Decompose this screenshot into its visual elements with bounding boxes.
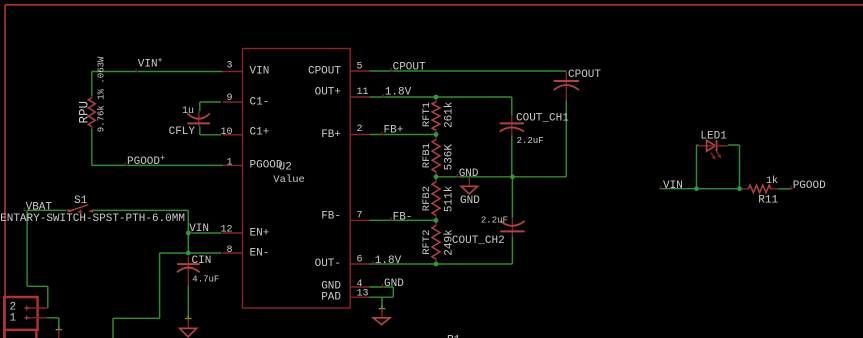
svg-text:C1-: C1- [250, 97, 270, 109]
svg-text:RPU: RPU [78, 101, 92, 124]
svg-text:EN-: EN- [250, 247, 270, 259]
svg-text:511k: 511k [444, 185, 456, 212]
svg-text:1: 1 [226, 157, 232, 168]
svg-text:CPOUT: CPOUT [568, 69, 601, 81]
svg-text:9: 9 [226, 93, 232, 104]
svg-text:8: 8 [226, 245, 232, 256]
svg-text:2: 2 [357, 124, 363, 135]
svg-text:12: 12 [220, 224, 232, 235]
svg-text:LED1: LED1 [700, 131, 727, 143]
svg-text:+: + [158, 57, 163, 66]
svg-text:249k: 249k [444, 229, 456, 256]
svg-text:PGOOD: PGOOD [250, 160, 283, 172]
svg-text:GND: GND [459, 168, 479, 180]
svg-text:EN+: EN+ [250, 227, 270, 239]
svg-text:FB+: FB+ [321, 129, 341, 141]
svg-text:1k: 1k [766, 175, 778, 187]
svg-text:RFB1: RFB1 [421, 143, 433, 168]
svg-text:1u: 1u [182, 106, 194, 117]
svg-text:261k: 261k [444, 101, 456, 128]
svg-text:R11: R11 [758, 194, 778, 206]
svg-text:9.76k 1% .063W: 9.76k 1% .063W [96, 56, 106, 132]
svg-text:5: 5 [357, 61, 363, 72]
svg-text:1.8V: 1.8V [385, 86, 412, 98]
svg-text:VIN: VIN [663, 180, 683, 192]
svg-text:11: 11 [357, 87, 369, 98]
svg-text:S1: S1 [74, 195, 88, 207]
svg-text:PGOOD: PGOOD [793, 180, 826, 192]
svg-text:536K: 536K [444, 144, 456, 171]
svg-text:CIN: CIN [192, 255, 212, 267]
svg-text:R1: R1 [447, 335, 461, 338]
svg-text:7: 7 [357, 211, 363, 222]
svg-text:VBAT: VBAT [26, 202, 53, 214]
svg-text:2.2uF: 2.2uF [481, 216, 508, 226]
svg-text:13: 13 [357, 288, 369, 299]
svg-text:VIN: VIN [250, 66, 270, 78]
svg-text:FB+: FB+ [384, 124, 404, 136]
svg-text:1: 1 [10, 312, 17, 324]
svg-text:CFLY: CFLY [169, 126, 196, 138]
svg-text:GND: GND [460, 195, 480, 207]
svg-text:OUT-: OUT- [315, 258, 341, 270]
svg-text:FB-: FB- [321, 210, 341, 222]
svg-text:CPOUT: CPOUT [308, 66, 341, 78]
svg-text:OUT+: OUT+ [315, 86, 341, 98]
svg-text:PGOOD: PGOOD [127, 156, 160, 168]
svg-text:+: + [160, 154, 165, 163]
svg-text:COUT_CH2: COUT_CH2 [452, 235, 505, 247]
svg-text:RFB2: RFB2 [421, 186, 433, 211]
svg-text:MOMENTARY-SWITCH-SPST-PTH-6.0M: MOMENTARY-SWITCH-SPST-PTH-6.0MM [0, 213, 185, 225]
svg-text:CPOUT: CPOUT [393, 62, 426, 74]
svg-text:RFT2: RFT2 [421, 230, 433, 255]
svg-text:FB-: FB- [393, 212, 413, 224]
svg-text:Value: Value [273, 174, 305, 186]
svg-text:COUT_CH1: COUT_CH1 [516, 113, 569, 125]
svg-text:VIN: VIN [138, 59, 158, 71]
svg-text:RFT1: RFT1 [421, 102, 433, 127]
svg-text:4.7uF: 4.7uF [192, 274, 219, 284]
svg-text:GND: GND [384, 278, 404, 290]
svg-text:10: 10 [220, 127, 232, 138]
svg-text:PAD: PAD [321, 291, 341, 303]
svg-text:2.2uF: 2.2uF [517, 136, 544, 146]
svg-text:6: 6 [357, 254, 363, 265]
svg-text:3: 3 [226, 61, 232, 72]
svg-text:1.8V: 1.8V [375, 255, 402, 267]
svg-text:C1+: C1+ [250, 127, 270, 139]
